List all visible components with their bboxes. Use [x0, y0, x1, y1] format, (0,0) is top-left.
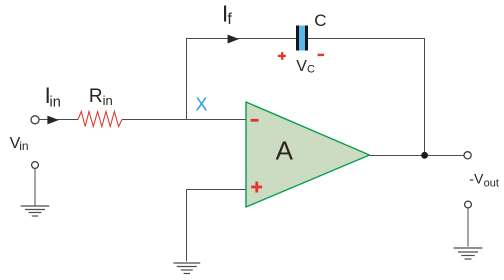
svg-text:A: A — [276, 135, 294, 165]
svg-text:R: R — [89, 86, 103, 107]
svg-text:in: in — [103, 93, 113, 108]
svg-text:out: out — [484, 178, 499, 190]
svg-text:C: C — [314, 11, 326, 30]
svg-text:X: X — [196, 94, 208, 114]
svg-text:f: f — [227, 11, 232, 28]
svg-text:-V: -V — [469, 171, 484, 187]
svg-text:V: V — [296, 58, 307, 75]
svg-text:C: C — [307, 64, 315, 76]
svg-text:in: in — [19, 139, 28, 153]
svg-text:in: in — [50, 95, 61, 111]
